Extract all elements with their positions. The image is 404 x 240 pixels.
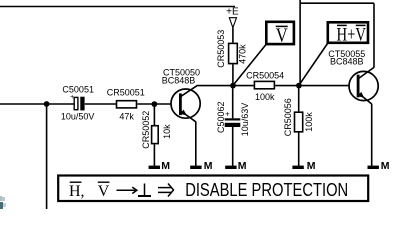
wire CT50055 collector vertical	[373, 3, 375, 67]
wire left vertical drop	[46, 104, 48, 209]
svg-text:M: M	[238, 160, 247, 172]
svg-text:H+V: H+V	[337, 24, 367, 45]
svg-text:10u/50V: 10u/50V	[61, 112, 95, 122]
resistor CR50052	[141, 111, 172, 149]
wire CR50051 to CT50050 base	[138, 103, 172, 105]
node B junction dot	[296, 83, 302, 89]
svg-text:+: +	[70, 94, 74, 101]
wire after C50051 to CR50051	[85, 103, 116, 105]
H+V measurement box	[328, 22, 368, 45]
wire collector rail y85.6	[197, 85, 254, 87]
wire node A down to C50062	[232, 86, 234, 119]
ground G4	[292, 160, 315, 172]
ground G5	[368, 160, 390, 172]
svg-text:CR50056: CR50056	[283, 98, 293, 136]
svg-text:+E: +E	[226, 7, 239, 18]
wire CR50056 to ground	[298, 133, 300, 167]
node A junction dot	[230, 83, 236, 89]
node junction dot CR50052 top	[152, 101, 158, 107]
wire +E down to CR50053	[232, 28, 234, 43]
wire CT50050 emitter vertical	[195, 122, 197, 167]
svg-text:100k: 100k	[304, 112, 314, 132]
svg-text:BC848B: BC848B	[162, 76, 196, 86]
svg-text:H,: H,	[69, 183, 85, 200]
wire CR50052 top	[153, 104, 155, 125]
resistor CR50053	[216, 30, 248, 68]
svg-text:10u/63V: 10u/63V	[240, 103, 250, 137]
svg-text:C50051: C50051	[62, 84, 94, 94]
wire top rail	[0, 6, 235, 8]
V measurement box	[266, 22, 294, 47]
wire node B down to CR50056	[298, 86, 300, 112]
wire CR50053 to node A	[232, 64, 234, 85]
svg-text:M: M	[307, 160, 316, 172]
capacitor C50051	[61, 84, 95, 121]
capacitor C50062	[216, 101, 250, 136]
svg-text:M: M	[204, 160, 213, 172]
svg-text:M: M	[381, 160, 390, 172]
svg-text:CR50051: CR50051	[107, 87, 145, 97]
wire CR50054 right to node B	[275, 85, 349, 87]
svg-text:CR50053: CR50053	[216, 30, 226, 68]
wire node B vertical up	[299, 0, 301, 86]
svg-text:CR50052: CR50052	[141, 111, 151, 149]
formula box DISABLE PROTECTION	[58, 176, 368, 202]
resistor CR50056	[283, 98, 314, 136]
wire CT50055 emitter vertical	[371, 104, 373, 167]
resistor CR50054	[246, 70, 284, 102]
ground G3	[225, 160, 247, 172]
svg-text:10k: 10k	[162, 124, 172, 139]
svg-text:M: M	[161, 160, 170, 172]
wire C50062 to ground	[232, 127, 234, 167]
wire callout node A to V box	[234, 45, 266, 85]
svg-text:DISABLE PROTECTION: DISABLE PROTECTION	[185, 180, 348, 200]
svg-text:V: V	[276, 25, 288, 46]
power +E symbol	[226, 7, 239, 28]
node junction dot left	[44, 101, 50, 107]
svg-text:BC848B: BC848B	[330, 57, 364, 67]
ground G1	[149, 160, 171, 172]
wire top right horizontal	[300, 2, 374, 4]
svg-text:100k: 100k	[255, 92, 275, 102]
transistor CT50050	[162, 68, 200, 122]
svg-text:CR50054: CR50054	[246, 70, 284, 80]
svg-text:V: V	[98, 183, 110, 200]
svg-text:470k: 470k	[238, 44, 248, 64]
teal corner artifact	[0, 196, 6, 209]
ground G2	[190, 160, 213, 172]
svg-text:47k: 47k	[119, 111, 134, 121]
resistor CR50051	[107, 87, 145, 121]
svg-text:C50062: C50062	[216, 101, 226, 133]
wire callout node B to H+V box	[299, 44, 327, 85]
wire main left horizontal	[0, 103, 74, 105]
transistor CT50055	[328, 49, 378, 104]
wire CR50052 bottom to ground	[153, 144, 155, 166]
